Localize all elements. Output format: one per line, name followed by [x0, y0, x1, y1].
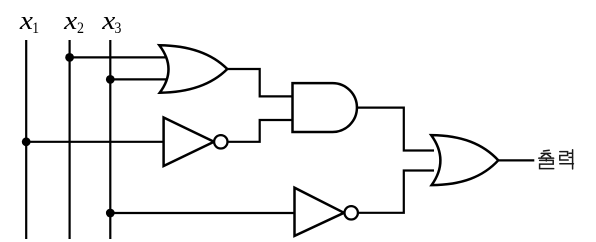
- svg-text:x: x: [63, 6, 78, 36]
- svg-text:2: 2: [77, 21, 84, 38]
- svg-text:1: 1: [32, 21, 39, 38]
- svg-text:3: 3: [114, 21, 121, 38]
